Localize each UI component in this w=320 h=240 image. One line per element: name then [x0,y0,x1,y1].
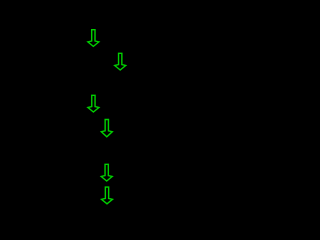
arrow 5 (down block arrow, fifth) [101,164,112,181]
arrow 3 (down block arrow, third) [88,95,99,112]
arrow 6 (down block arrow, bottom) [102,187,113,204]
arrow 1 (down block arrow, top) [88,30,99,47]
arrow 2 (down block arrow, second, offset right) [115,53,126,70]
arrow 4 (down block arrow, fourth) [101,120,112,137]
